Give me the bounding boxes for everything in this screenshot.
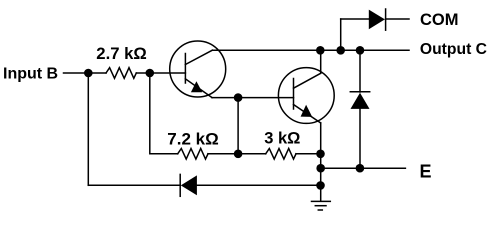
node dot input junction — [84, 69, 93, 78]
node dot R2/R3 junction — [234, 150, 243, 159]
wire D1 cathode to COM terminal — [386, 18, 409, 20]
wire bottom line from input column to diode D3 — [88, 184, 180, 186]
wire vertical from node to 7.2k resistor — [150, 73, 178, 154]
wire E rail — [321, 167, 406, 169]
node dot emitter rail at 3k — [316, 150, 325, 159]
transistor Q1 emitter arrow — [191, 81, 202, 92]
wire Q1 collector to output rail — [212, 49, 320, 51]
diode D1 triangle — [369, 10, 385, 30]
svg-text:COM: COM — [420, 11, 459, 29]
svg-text:7.2 kΩ: 7.2 kΩ — [167, 130, 218, 149]
transistor Q1 base bar — [184, 54, 186, 84]
wire COM branch vertical — [340, 19, 342, 50]
svg-text:E: E — [420, 161, 432, 181]
resistor R2 7.2 kOhm zigzag — [178, 149, 208, 160]
wire left vertical from input junction down to bottom diode line — [87, 73, 89, 185]
transistor Q2 circle — [278, 68, 334, 124]
transistor Q2 emitter — [294, 105, 321, 124]
ground — [312, 201, 331, 210]
transistor Q1 circle — [170, 41, 226, 97]
node dot ground junction — [316, 181, 325, 190]
node dot output rail at clamp diode branch — [356, 46, 365, 55]
wire input line — [64, 72, 107, 74]
wire Q1 emitter to Q2 base — [212, 97, 294, 99]
transistor Q2 base bar — [293, 79, 295, 110]
transistor Q2 collector — [294, 73, 321, 88]
wire R3 to emitter rail — [296, 153, 321, 155]
wire clamp diode upper lead — [359, 50, 361, 92]
diode D2 cathode bar — [350, 91, 369, 93]
node dot E rail at emitter column — [316, 164, 325, 173]
diode D1 cathode bar — [385, 9, 387, 30]
diode D3 cathode bar — [179, 174, 181, 196]
node dot R2 branch junction — [146, 69, 155, 78]
svg-text:Output C: Output C — [420, 41, 487, 58]
diode D2 triangle — [351, 93, 370, 109]
transistor Q1 collector — [185, 50, 212, 64]
node dot Q1 emitter branch — [234, 93, 243, 102]
wire clamp diode lower lead to E rail — [359, 109, 361, 168]
node dot output rail at COM branch — [336, 46, 345, 55]
svg-text:3 kΩ: 3 kΩ — [264, 130, 300, 148]
svg-text:Input B: Input B — [3, 66, 58, 83]
wire Q2 emitter vertical down to ground — [320, 123, 322, 200]
wire output rail right section — [321, 49, 410, 51]
wire resistor R1 to Q1 base — [136, 72, 185, 74]
node dot output rail at Q2 collector — [316, 46, 325, 55]
svg-text:2.7 kΩ: 2.7 kΩ — [96, 44, 147, 63]
resistor R1 2.7 kOhm zigzag — [106, 68, 136, 79]
wire D3 anode to ground column — [197, 184, 321, 186]
wire R2 to mid junction — [208, 153, 266, 155]
wire vertical from Q2 base line down to resistor junction — [237, 98, 239, 154]
wire Q2 collector vertical to output rail — [320, 50, 322, 73]
resistor R3 3 kOhm zigzag — [266, 149, 296, 160]
node dot E rail at clamp diode — [356, 164, 365, 173]
transistor Q1 emitter — [185, 79, 212, 98]
transistor Q2 emitter arrow — [301, 105, 313, 117]
diode D3 triangle — [181, 175, 197, 195]
wire COM branch horizontal to diode D1 — [341, 18, 369, 20]
